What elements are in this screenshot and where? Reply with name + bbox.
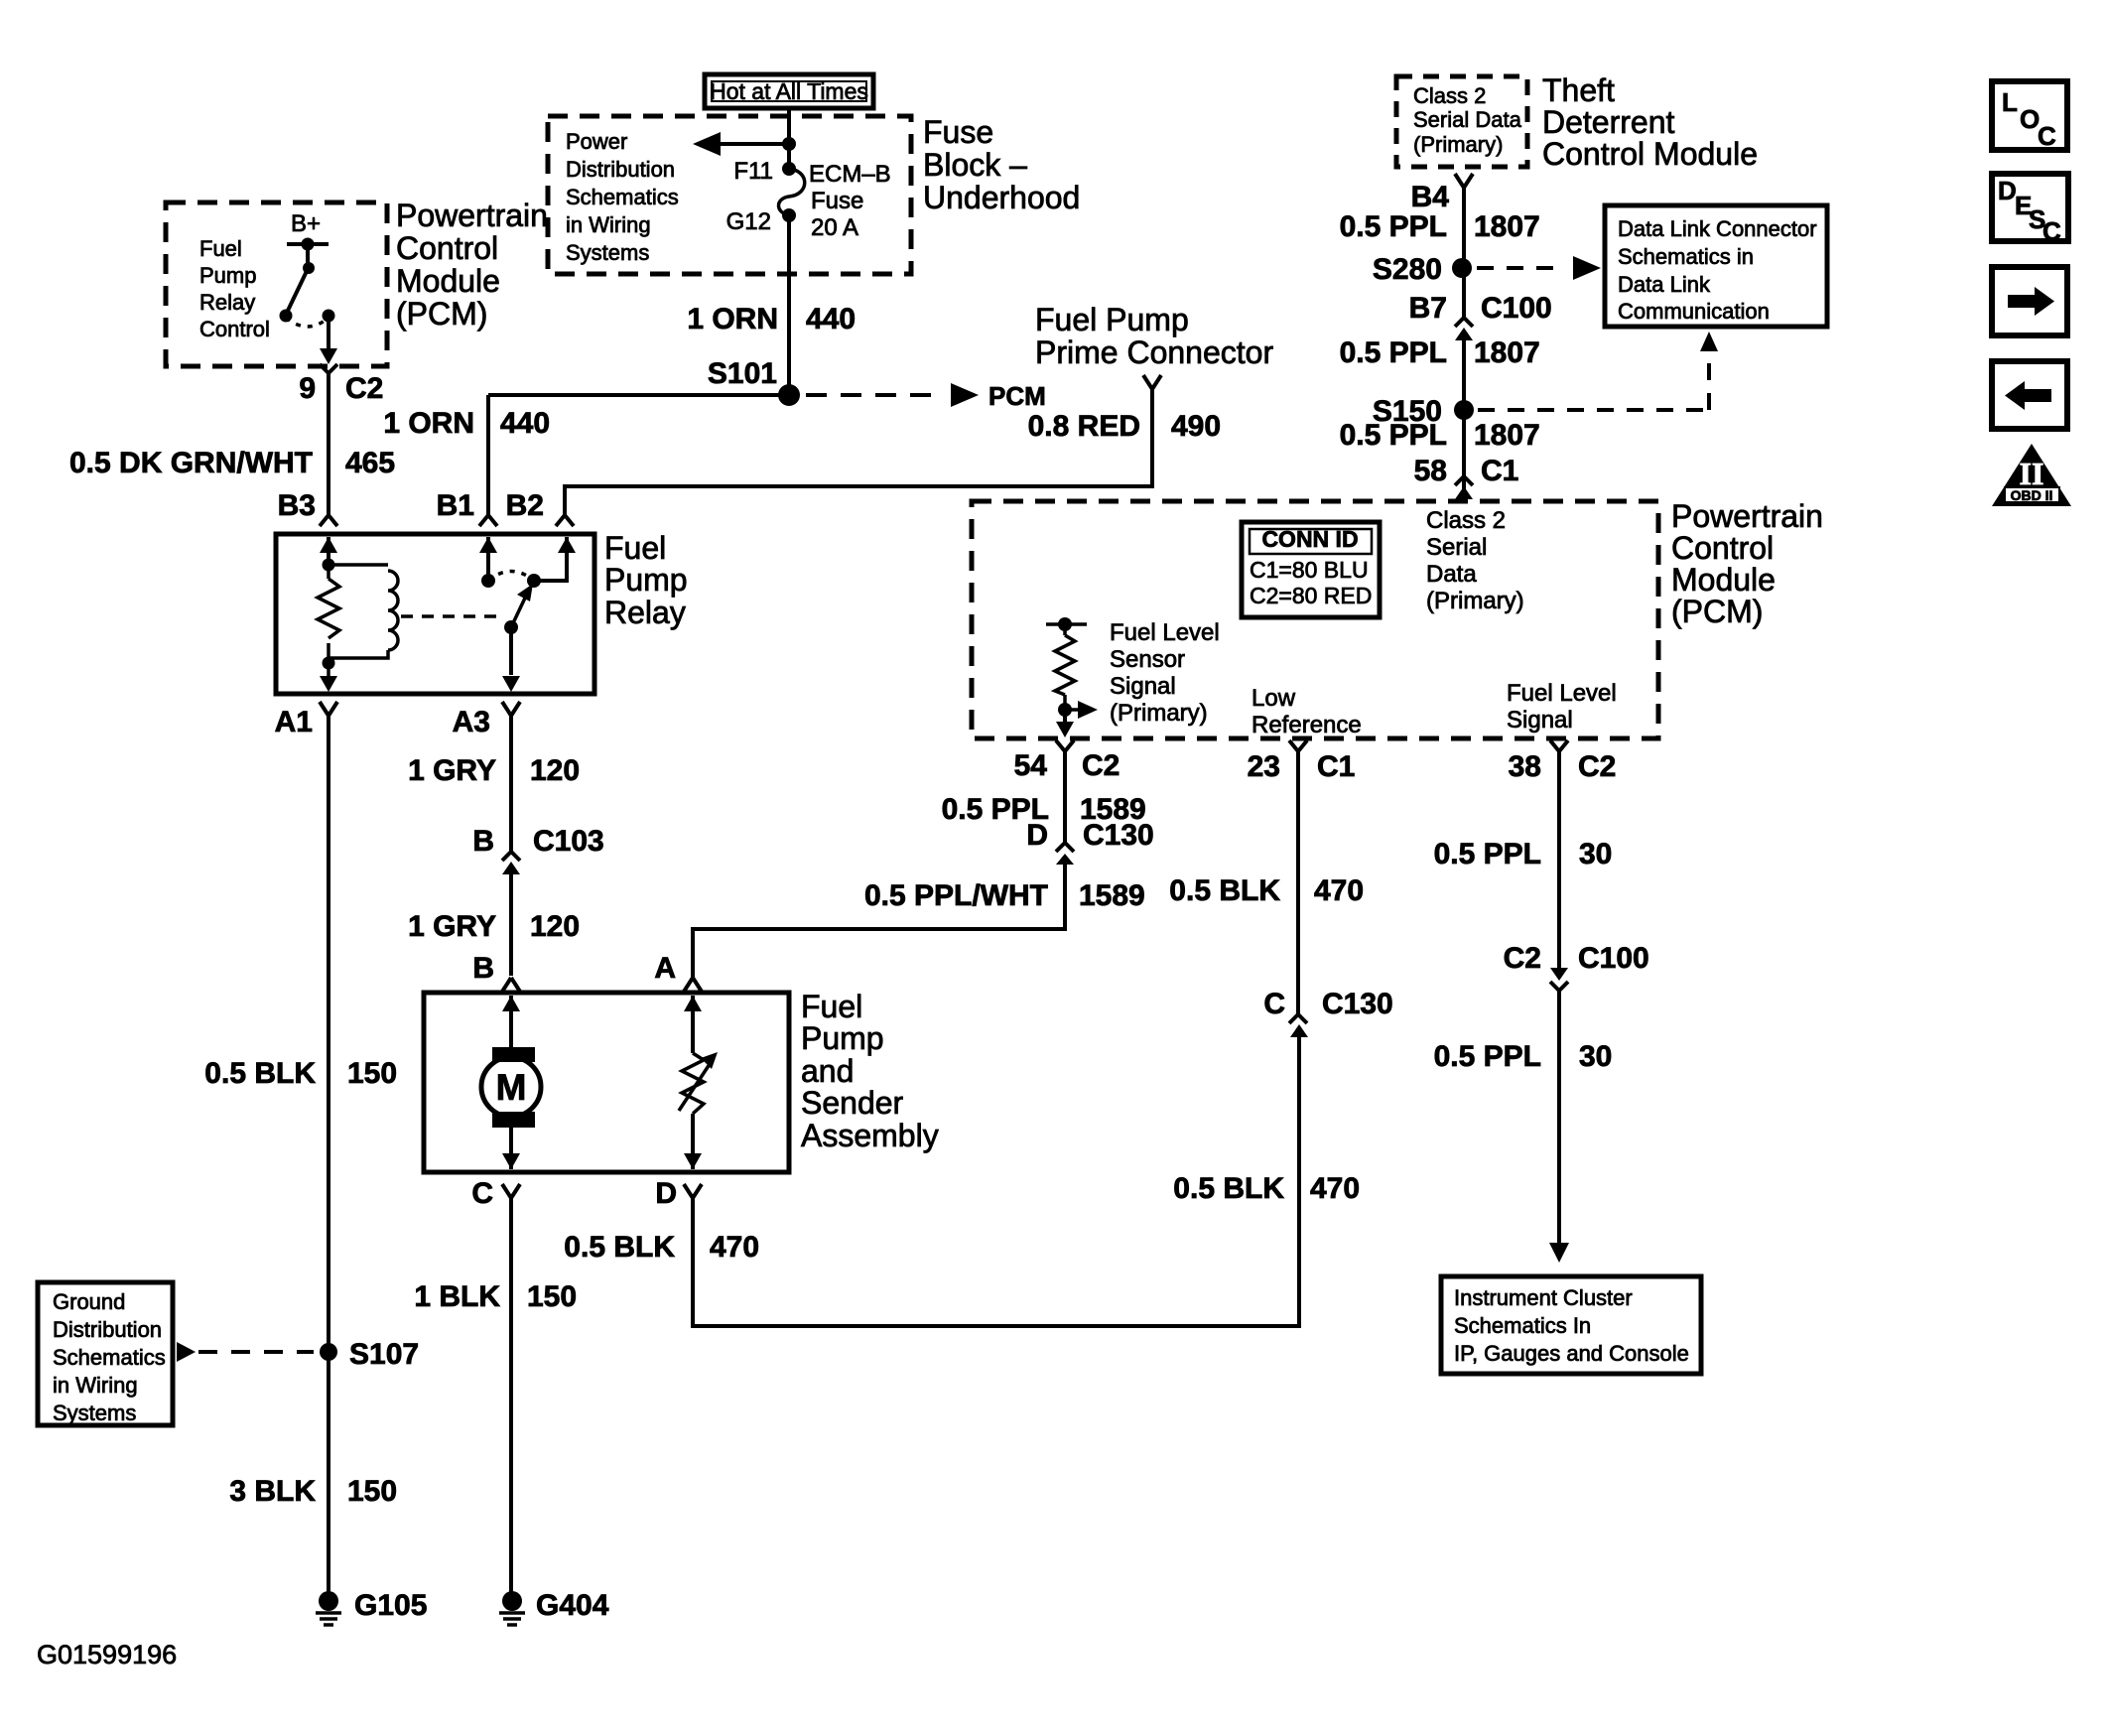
svg-text:Block –: Block – — [923, 147, 1027, 183]
svg-text:Pump: Pump — [199, 263, 256, 288]
svg-text:1807: 1807 — [1474, 210, 1540, 243]
svg-text:B2: B2 — [506, 489, 544, 522]
svg-text:30: 30 — [1579, 1040, 1612, 1073]
svg-text:Pump: Pump — [801, 1020, 884, 1056]
svg-text:IP, Gauges and Console: IP, Gauges and Console — [1454, 1341, 1689, 1366]
svg-text:Control: Control — [199, 317, 270, 341]
svg-text:1 ORN: 1 ORN — [383, 407, 474, 440]
svg-text:A: A — [654, 952, 676, 985]
svg-text:1807: 1807 — [1474, 336, 1540, 369]
svg-text:G12: G12 — [726, 208, 771, 235]
svg-text:1 BLK: 1 BLK — [414, 1280, 500, 1313]
svg-text:Relay: Relay — [604, 595, 686, 630]
svg-text:Relay: Relay — [199, 290, 255, 315]
svg-text:Schematics: Schematics — [566, 185, 679, 209]
svg-text:0.5 BLK: 0.5 BLK — [564, 1231, 675, 1264]
svg-text:S107: S107 — [349, 1338, 419, 1371]
svg-text:Theft: Theft — [1542, 72, 1615, 108]
svg-text:Sensor: Sensor — [1110, 646, 1185, 673]
svg-text:B3: B3 — [278, 489, 316, 522]
svg-text:Serial: Serial — [1426, 534, 1487, 561]
svg-text:B: B — [472, 825, 494, 858]
svg-text:L: L — [2002, 87, 2018, 117]
svg-text:C1=80 BLU: C1=80 BLU — [1250, 557, 1369, 583]
svg-text:Serial Data: Serial Data — [1413, 107, 1522, 132]
svg-text:Powertrain: Powertrain — [1671, 498, 1823, 534]
svg-text:Instrument Cluster: Instrument Cluster — [1454, 1285, 1633, 1310]
svg-text:B+: B+ — [291, 210, 321, 237]
svg-text:470: 470 — [1310, 1172, 1360, 1205]
svg-text:C130: C130 — [1322, 988, 1393, 1020]
svg-text:Data Link Connector: Data Link Connector — [1618, 216, 1817, 241]
svg-text:Powertrain: Powertrain — [396, 198, 548, 233]
svg-text:C100: C100 — [1578, 942, 1649, 975]
svg-text:0.5 PPL: 0.5 PPL — [1340, 419, 1447, 452]
svg-text:PCM: PCM — [988, 381, 1046, 411]
svg-text:B7: B7 — [1409, 292, 1447, 325]
svg-text:C2=80 RED: C2=80 RED — [1250, 583, 1372, 608]
svg-text:(Primary): (Primary) — [1413, 132, 1503, 157]
svg-text:0.5 BLK: 0.5 BLK — [1169, 874, 1280, 907]
svg-text:C103: C103 — [533, 825, 604, 858]
svg-text:Sender: Sender — [801, 1085, 904, 1121]
svg-text:30: 30 — [1579, 838, 1612, 870]
svg-text:58: 58 — [1414, 455, 1447, 487]
svg-text:440: 440 — [806, 303, 856, 335]
svg-text:Class 2: Class 2 — [1426, 507, 1506, 534]
svg-text:Hot at All Times: Hot at All Times — [710, 78, 868, 104]
svg-text:Fuel: Fuel — [199, 236, 242, 261]
svg-text:Signal: Signal — [1507, 707, 1573, 734]
svg-text:150: 150 — [347, 1475, 397, 1508]
svg-text:Fuel: Fuel — [801, 989, 862, 1024]
svg-text:465: 465 — [345, 447, 395, 479]
svg-text:1807: 1807 — [1474, 419, 1540, 452]
svg-text:0.5 PPL/WHT: 0.5 PPL/WHT — [864, 879, 1048, 912]
svg-text:Data: Data — [1426, 561, 1477, 588]
svg-text:Schematics In: Schematics In — [1454, 1313, 1591, 1338]
svg-text:II: II — [2020, 456, 2044, 491]
svg-text:0.5 DK GRN/WHT: 0.5 DK GRN/WHT — [69, 447, 313, 479]
svg-text:0.5 BLK: 0.5 BLK — [1173, 1172, 1284, 1205]
svg-text:20 A: 20 A — [811, 214, 858, 241]
svg-text:C1: C1 — [1481, 455, 1518, 487]
svg-text:1 GRY: 1 GRY — [408, 910, 496, 943]
svg-text:Fuel Pump: Fuel Pump — [1035, 302, 1189, 337]
svg-text:Fuel: Fuel — [604, 530, 666, 566]
svg-text:0.5 BLK: 0.5 BLK — [204, 1057, 316, 1090]
svg-text:120: 120 — [530, 754, 580, 787]
svg-text:OBD II: OBD II — [2011, 487, 2053, 503]
svg-text:Module: Module — [1671, 562, 1776, 598]
svg-text:0.5 PPL: 0.5 PPL — [1340, 336, 1447, 369]
svg-text:490: 490 — [1171, 410, 1221, 443]
svg-text:0.5 PPL: 0.5 PPL — [1434, 838, 1541, 870]
svg-text:Deterrent: Deterrent — [1542, 104, 1675, 140]
svg-text:C2: C2 — [1504, 942, 1541, 975]
svg-text:C1: C1 — [1317, 750, 1355, 783]
svg-text:Systems: Systems — [53, 1401, 136, 1425]
svg-text:Signal: Signal — [1110, 673, 1176, 700]
svg-text:G01599196: G01599196 — [37, 1640, 177, 1669]
svg-text:470: 470 — [1314, 874, 1364, 907]
svg-text:Control Module: Control Module — [1542, 136, 1758, 172]
svg-text:Pump: Pump — [604, 562, 688, 598]
svg-text:D: D — [655, 1177, 677, 1210]
svg-text:S280: S280 — [1373, 253, 1442, 286]
svg-text:C: C — [1263, 988, 1285, 1020]
svg-text:C: C — [2042, 216, 2061, 246]
svg-text:and: and — [801, 1053, 854, 1089]
svg-text:Assembly: Assembly — [801, 1118, 939, 1153]
svg-text:1 ORN: 1 ORN — [687, 303, 778, 335]
svg-text:150: 150 — [527, 1280, 577, 1313]
svg-text:B1: B1 — [437, 489, 474, 522]
svg-text:B4: B4 — [1411, 181, 1450, 213]
svg-text:(PCM): (PCM) — [396, 296, 487, 332]
svg-text:0.5 PPL: 0.5 PPL — [1340, 210, 1447, 243]
svg-text:S101: S101 — [708, 357, 777, 390]
svg-text:Module: Module — [396, 263, 500, 299]
svg-text:470: 470 — [710, 1231, 759, 1264]
svg-text:Low: Low — [1252, 685, 1296, 712]
svg-text:C100: C100 — [1481, 292, 1552, 325]
svg-text:(Primary): (Primary) — [1110, 700, 1208, 727]
svg-text:Class 2: Class 2 — [1413, 83, 1486, 108]
svg-text:G105: G105 — [354, 1589, 427, 1622]
svg-text:C: C — [2038, 121, 2056, 151]
svg-text:120: 120 — [530, 910, 580, 943]
svg-text:Schematics: Schematics — [53, 1345, 166, 1370]
svg-text:Control: Control — [1671, 530, 1774, 566]
svg-text:Fuel Level: Fuel Level — [1507, 680, 1617, 707]
svg-text:0.5 PPL: 0.5 PPL — [1434, 1040, 1541, 1073]
svg-text:3 BLK: 3 BLK — [229, 1475, 316, 1508]
svg-text:Reference: Reference — [1252, 712, 1362, 738]
svg-text:in Wiring: in Wiring — [566, 212, 651, 237]
svg-text:(Primary): (Primary) — [1426, 588, 1524, 614]
svg-text:440: 440 — [500, 407, 550, 440]
svg-text:A1: A1 — [275, 706, 313, 738]
svg-text:CONN ID: CONN ID — [1261, 526, 1358, 552]
svg-text:9: 9 — [299, 372, 316, 405]
svg-text:Schematics in: Schematics in — [1618, 244, 1754, 269]
svg-text:G404: G404 — [536, 1589, 609, 1622]
svg-text:A3: A3 — [453, 706, 490, 738]
svg-text:F11: F11 — [733, 158, 773, 185]
svg-text:Control: Control — [396, 230, 498, 266]
svg-text:Systems: Systems — [566, 240, 649, 265]
svg-text:D: D — [1998, 176, 2017, 205]
svg-text:54: 54 — [1014, 749, 1048, 782]
svg-text:Fuse: Fuse — [811, 188, 863, 214]
svg-text:ECM–B: ECM–B — [809, 161, 891, 188]
svg-text:B: B — [472, 952, 494, 985]
svg-text:Distribution: Distribution — [566, 157, 675, 182]
svg-text:Underhood: Underhood — [923, 180, 1080, 215]
svg-text:C: C — [471, 1177, 493, 1210]
svg-text:Ground: Ground — [53, 1289, 125, 1314]
svg-text:Fuel Level: Fuel Level — [1110, 619, 1220, 646]
svg-text:38: 38 — [1509, 750, 1541, 783]
svg-text:Data Link: Data Link — [1618, 272, 1711, 297]
svg-text:150: 150 — [347, 1057, 397, 1090]
svg-text:(PCM): (PCM) — [1671, 594, 1763, 629]
svg-text:23: 23 — [1248, 750, 1280, 783]
svg-text:Power: Power — [566, 129, 627, 154]
svg-text:D: D — [1026, 819, 1048, 852]
svg-text:C2: C2 — [345, 372, 383, 405]
svg-text:Communication: Communication — [1618, 299, 1770, 324]
svg-text:Prime Connector: Prime Connector — [1035, 334, 1273, 370]
svg-text:C2: C2 — [1082, 749, 1120, 782]
svg-text:1589: 1589 — [1079, 879, 1145, 912]
svg-text:Fuse: Fuse — [923, 114, 993, 150]
svg-text:C2: C2 — [1578, 750, 1616, 783]
svg-text:C130: C130 — [1083, 819, 1154, 852]
svg-text:in Wiring: in Wiring — [53, 1373, 138, 1398]
svg-text:0.8 RED: 0.8 RED — [1028, 410, 1140, 443]
svg-text:Distribution: Distribution — [53, 1317, 162, 1342]
svg-text:1 GRY: 1 GRY — [408, 754, 496, 787]
svg-text:M: M — [496, 1067, 527, 1108]
